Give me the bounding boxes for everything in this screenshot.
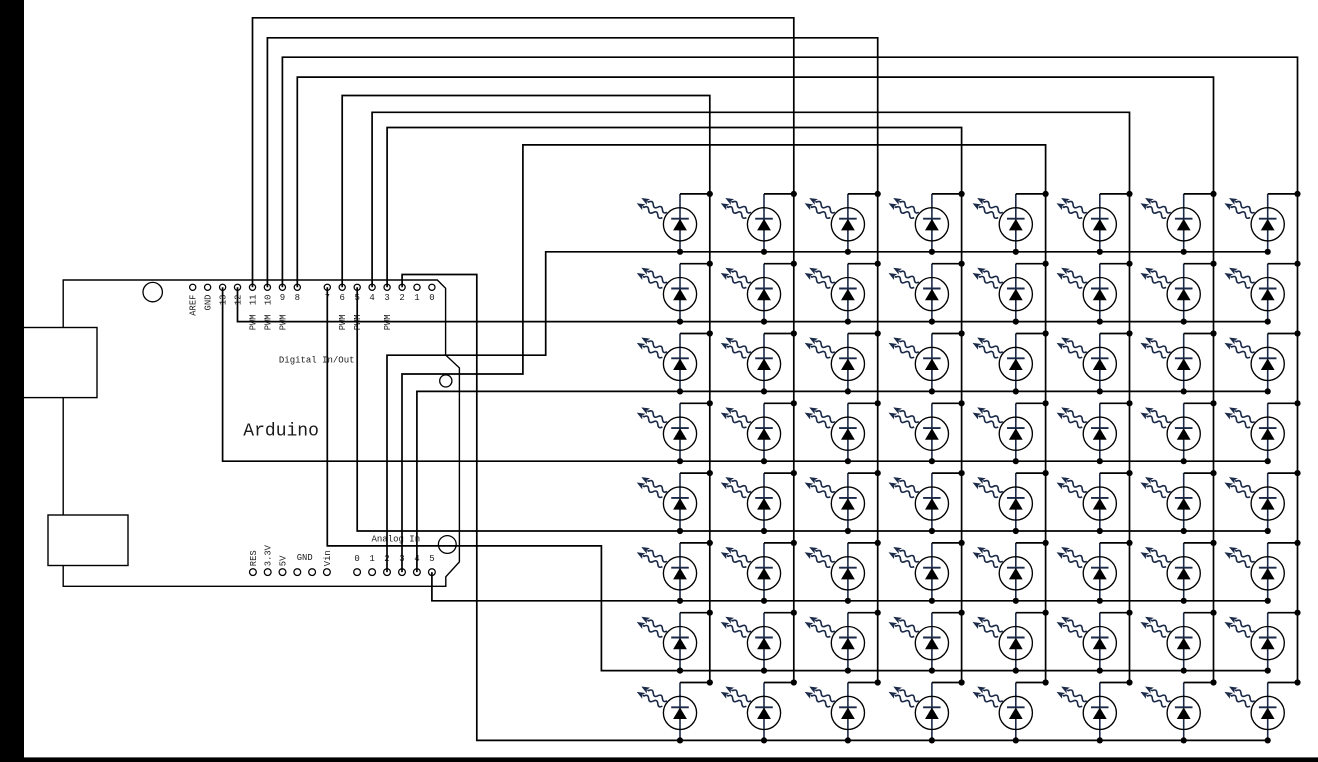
Arduino U1 board outline: [63, 280, 459, 586]
svg-text:10: 10: [263, 295, 273, 306]
svg-text:12: 12: [233, 295, 243, 306]
LED D67 (row 6, col 7): [1139, 540, 1217, 604]
svg-text:Vin: Vin: [323, 550, 333, 566]
pin D0: [429, 284, 435, 290]
svg-text:11: 11: [248, 295, 258, 306]
LED D15 (row 1, col 5): [971, 191, 1049, 255]
LED D53 (row 5, col 3): [803, 470, 881, 534]
LED D26 (row 2, col 6): [1055, 261, 1133, 325]
LED D51 (row 5, col 1): [635, 470, 713, 534]
pin D11: [249, 284, 255, 290]
pin A5: [429, 569, 436, 576]
LED D11 (row 1, col 1): [635, 191, 713, 255]
svg-text:Analog In: Analog In: [372, 534, 421, 544]
pin A2: [384, 569, 391, 576]
LED D56 (row 5, col 6): [1055, 470, 1133, 534]
LED D87 (row 8, col 7): [1139, 679, 1217, 743]
LED D84 (row 8, col 4): [887, 679, 965, 743]
wire D5 to LED row 5: [357, 287, 1267, 531]
LED D12 (row 1, col 2): [719, 191, 797, 255]
LED D63 (row 6, col 3): [803, 540, 881, 604]
LED D25 (row 2, col 5): [971, 261, 1049, 325]
LED D34 (row 3, col 4): [887, 330, 965, 394]
pin RES: [250, 569, 257, 576]
wire D2 to LED row 8: [402, 275, 1268, 741]
LED D73 (row 7, col 3): [803, 610, 881, 674]
svg-text:0: 0: [429, 293, 434, 303]
LED D37 (row 3, col 7): [1139, 330, 1217, 394]
svg-text:GND: GND: [297, 553, 313, 563]
pin GND: [205, 284, 211, 290]
pin GND2: [309, 569, 316, 576]
wire D4 to LED column 6: [372, 112, 1129, 682]
svg-text:GND: GND: [204, 295, 214, 311]
LED D43 (row 4, col 3): [803, 400, 881, 464]
svg-text:RES: RES: [249, 550, 259, 566]
svg-text:Digital In/Out: Digital In/Out: [279, 356, 355, 366]
LED D23 (row 2, col 3): [803, 261, 881, 325]
LED D57 (row 5, col 7): [1139, 470, 1217, 534]
pin D1: [414, 284, 420, 290]
wire A2 to LED row 1: [387, 252, 1268, 572]
LED D75 (row 7, col 5): [971, 610, 1049, 674]
LED D85 (row 8, col 5): [971, 679, 1049, 743]
LED D16 (row 1, col 6): [1055, 191, 1133, 255]
LED D83 (row 8, col 3): [803, 679, 881, 743]
wire D12 to LED row 2: [238, 287, 1268, 321]
svg-text:3.3V: 3.3V: [264, 544, 274, 566]
LED D64 (row 6, col 4): [887, 540, 965, 604]
LED D18 (row 1, col 8): [1223, 191, 1301, 255]
svg-text:5: 5: [429, 554, 434, 564]
pin D13: [220, 284, 226, 290]
pin 3V3: [264, 569, 271, 576]
LED D24 (row 2, col 4): [887, 261, 965, 325]
pin A0: [354, 569, 361, 576]
wire A3 to LED column 5: [402, 145, 1046, 683]
LED D72 (row 7, col 2): [719, 610, 797, 674]
pin GND1: [294, 569, 301, 576]
svg-text:5V: 5V: [278, 555, 288, 566]
wire D6 to LED column 1: [342, 96, 710, 683]
svg-text:8: 8: [295, 293, 300, 303]
LED D45 (row 4, col 5): [971, 400, 1049, 464]
pin D12: [234, 284, 240, 290]
LED D48 (row 4, col 8): [1223, 400, 1301, 464]
LED D35 (row 3, col 5): [971, 330, 1049, 394]
LED D41 (row 4, col 1): [635, 400, 713, 464]
LED D68 (row 6, col 8): [1223, 540, 1301, 604]
wire A4 to LED row 3: [417, 391, 1268, 572]
wire D7 to LED row 7: [327, 287, 1267, 670]
wire D3 to LED column 4: [387, 128, 962, 683]
pin D6: [339, 284, 345, 290]
LED D88 (row 8, col 8): [1223, 679, 1301, 743]
mounting hole right lower: [438, 536, 456, 554]
LED D47 (row 4, col 7): [1139, 400, 1217, 464]
LED D71 (row 7, col 1): [635, 610, 713, 674]
svg-text:1: 1: [414, 293, 419, 303]
mounting hole top-left: [143, 282, 162, 301]
LED D27 (row 2, col 7): [1139, 261, 1217, 325]
wire D10 to LED column 3: [267, 38, 877, 683]
USB connector J1: [22, 328, 97, 398]
pin D4: [369, 284, 375, 290]
LED D14 (row 1, col 4): [887, 191, 965, 255]
LED D38 (row 3, col 8): [1223, 330, 1301, 394]
svg-text:6: 6: [339, 293, 344, 303]
mounting hole right upper: [440, 375, 452, 387]
LED D81 (row 8, col 1): [635, 679, 713, 743]
LED D65 (row 6, col 5): [971, 540, 1049, 604]
pin D10: [264, 284, 270, 290]
pin VIN: [324, 569, 331, 576]
LED D13 (row 1, col 3): [803, 191, 881, 255]
LED D74 (row 7, col 4): [887, 610, 965, 674]
wire D8 to LED column 7: [297, 77, 1213, 682]
power jack J2: [48, 515, 128, 566]
LED D61 (row 6, col 1): [635, 540, 713, 604]
pin D8: [294, 284, 300, 290]
wire D9 to LED column 8: [282, 57, 1297, 682]
LED D33 (row 3, col 3): [803, 330, 881, 394]
LED D52 (row 5, col 2): [719, 470, 797, 534]
pin 5V: [279, 569, 286, 576]
svg-text:0: 0: [354, 554, 359, 564]
LED D86 (row 8, col 6): [1055, 679, 1133, 743]
LED D44 (row 4, col 4): [887, 400, 965, 464]
LED D22 (row 2, col 2): [719, 261, 797, 325]
LED D36 (row 3, col 6): [1055, 330, 1133, 394]
svg-text:AREF: AREF: [189, 295, 199, 316]
LED D28 (row 2, col 8): [1223, 261, 1301, 325]
LED D32 (row 3, col 2): [719, 330, 797, 394]
svg-text:4: 4: [369, 293, 374, 303]
LED D54 (row 5, col 4): [887, 470, 965, 534]
LED D42 (row 4, col 2): [719, 400, 797, 464]
pin D5: [354, 284, 360, 290]
svg-text:13: 13: [219, 295, 229, 306]
LED D78 (row 7, col 8): [1223, 610, 1301, 674]
LED D77 (row 7, col 7): [1139, 610, 1217, 674]
pin D2: [399, 284, 405, 290]
pin A4: [414, 569, 421, 576]
pin D3: [384, 284, 390, 290]
bottom black bar: [0, 757, 1318, 762]
svg-text:3: 3: [384, 293, 389, 303]
wire D11 to LED column 2: [253, 18, 794, 683]
LED D46 (row 4, col 6): [1055, 400, 1133, 464]
LED D58 (row 5, col 8): [1223, 470, 1301, 534]
left black bar: [0, 0, 24, 762]
LED D17 (row 1, col 7): [1139, 191, 1217, 255]
LED D31 (row 3, col 1): [635, 330, 713, 394]
pin A3: [399, 569, 406, 576]
pin D7: [324, 284, 330, 290]
wire A5 to LED row 6: [432, 572, 1268, 601]
LED D21 (row 2, col 1): [635, 261, 713, 325]
LED D55 (row 5, col 5): [971, 470, 1049, 534]
pin D9: [279, 284, 285, 290]
pin A1: [369, 569, 376, 576]
wire D13 to LED row 4: [223, 287, 1268, 461]
LED D62 (row 6, col 2): [719, 540, 797, 604]
LED D82 (row 8, col 2): [719, 679, 797, 743]
svg-text:2: 2: [399, 293, 404, 303]
svg-text:9: 9: [280, 293, 285, 303]
LED D76 (row 7, col 6): [1055, 610, 1133, 674]
pin AREF: [190, 284, 196, 290]
svg-text:Arduino: Arduino: [243, 421, 319, 441]
svg-text:1: 1: [369, 554, 374, 564]
LED D66 (row 6, col 6): [1055, 540, 1133, 604]
